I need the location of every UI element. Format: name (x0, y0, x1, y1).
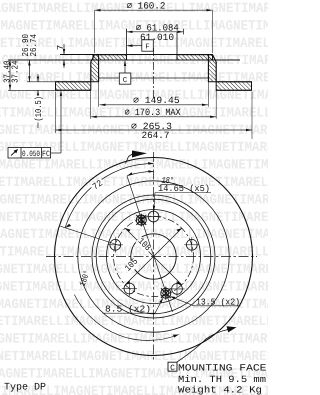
svg-text:MARELLIMAGNETIMARELLIMAGNETIMA: MARELLIMAGNETIMARELLIMAGNETIMARELLIMAGNE… (0, 192, 268, 208)
datum F box with leader (127, 40, 154, 52)
dimension ⌀265.3/264.7 (56, 92, 253, 141)
svg-text:Weight 4.2 Kg: Weight 4.2 Kg (178, 385, 262, 395)
lug hole at 216deg (122, 281, 137, 296)
svg-text:FC: FC (42, 150, 50, 159)
braking band left section (56, 82, 91, 91)
braking band right section (216, 82, 251, 91)
hat interior far-edge line (99, 77, 209, 79)
lug hole at 144deg (169, 281, 184, 296)
notes bottom right: C MOUNTING FACE (168, 362, 267, 395)
dimension ⌀170.3 MAX (91, 69, 217, 119)
svg-text:264.7: 264.7 (142, 130, 170, 141)
svg-text:Min. TH 9.5 mm: Min. TH 9.5 mm (178, 374, 266, 385)
leader + label 13.5 (x2) (170, 296, 241, 307)
svg-text:MOUNTING FACE: MOUNTING FACE (178, 363, 267, 374)
lug hole at 72deg (184, 237, 199, 252)
circle hat top rim (107, 210, 201, 304)
horizontal centerline (46, 256, 257, 258)
circle hat step (92, 195, 215, 318)
72 degree arc dimension (65, 162, 153, 228)
flange left section (hatched) (93, 55, 127, 60)
spigot diameter dimension 105 (SW-NE) (122, 228, 182, 285)
dimension (10.5) band thickness (34, 74, 44, 128)
lug hole at 0deg (146, 209, 161, 224)
circle hub flange (96, 199, 211, 314)
rotation direction arrow (126, 151, 148, 164)
radial line to hole at -72deg (60, 226, 121, 246)
svg-text:⌀ 149.45: ⌀ 149.45 (133, 95, 180, 106)
small stepped hole (sectioned) at -18.5deg (136, 214, 146, 227)
svg-text:0.050: 0.050 (22, 150, 40, 159)
hat wall right section (208, 55, 216, 82)
svg-text:26.74: 26.74 (29, 34, 39, 57)
band bottom extension line to left (8, 89, 56, 91)
svg-text:7: 7 (56, 45, 66, 50)
svg-text:MAGNETIMARELLIMAGNETIMARELLIMA: MAGNETIMARELLIMAGNETIMARELLIMAGNETIMAREL… (0, 279, 268, 295)
outer circle (disc OD) (55, 158, 253, 356)
svg-text:(10.5): (10.5) (34, 96, 44, 122)
dimension 37.40/37.24 (3, 60, 21, 90)
flange top surface line (60, 54, 213, 56)
band top extension line to left (27, 81, 56, 83)
diameter line through both small holes (-18/162) (127, 176, 173, 312)
180 degree dimension arc (74, 295, 178, 341)
section centerline (153, 48, 155, 99)
svg-text:MAGNETIMARELLIMAGNETIMARELLIMA: MAGNETIMARELLIMAGNETIMARELLIMAGNETIMAREL… (0, 36, 268, 52)
bolt circle (dash-dot) (114, 217, 194, 297)
dimension ⌀149.45 (99, 62, 209, 107)
18 degree arc dimension (127, 170, 175, 186)
svg-text:⌀ 160.2: ⌀ 160.2 (127, 0, 166, 11)
vertical centerline (153, 152, 155, 362)
circle pad inner edge (78, 181, 229, 332)
svg-text:8.5 (x2): 8.5 (x2) (105, 304, 151, 314)
mounting face datum line (8, 59, 240, 61)
bore wall left (126, 55, 128, 61)
dimension 7 (flange thickness) (56, 44, 66, 68)
hub bore circle (131, 234, 176, 279)
dimension ⌀160.2 (95, 0, 213, 53)
leader from C note to disc edge (curved) (177, 326, 237, 362)
svg-text:MARELLIMAGNETIMARELLIMAGNETIMA: MARELLIMAGNETIMARELLIMAGNETIMARELLIMAGNE… (0, 53, 268, 69)
hat wall left section (91, 55, 99, 82)
runout symbol arrow (11, 150, 17, 156)
svg-text:⌀ 170.3 MAX: ⌀ 170.3 MAX (125, 107, 181, 118)
bolt-circle diameter dimension 108 (NW-SE) (125, 228, 182, 285)
dimension 26.90/26.74 (21, 34, 39, 82)
datum C box with leader (119, 60, 131, 85)
lug hole at 288deg (108, 237, 123, 252)
svg-text:37.24: 37.24 (11, 61, 21, 84)
svg-text:F: F (145, 44, 150, 52)
svg-text:MAGNETIMARELLIMAGNETIMARELLIMA: MAGNETIMARELLIMAGNETIMARELLIMAGNETIMAREL… (0, 210, 268, 226)
svg-text:C: C (123, 76, 128, 85)
svg-text:C: C (170, 364, 175, 373)
flange right section (hatched) (177, 55, 213, 60)
runout feature control frame 0.050 FC (8, 90, 62, 159)
180 degree label (78, 269, 93, 287)
svg-text:Type DP: Type DP (4, 382, 46, 393)
leader + label 14.65 (x5) (153, 184, 211, 212)
small stepped hole (sectioned) at 161.5deg (161, 287, 171, 300)
leader + label 8.5 (x2) (103, 298, 164, 315)
bore wall right (176, 55, 178, 61)
dimension ⌀61.084 / 61.010 (127, 22, 184, 54)
